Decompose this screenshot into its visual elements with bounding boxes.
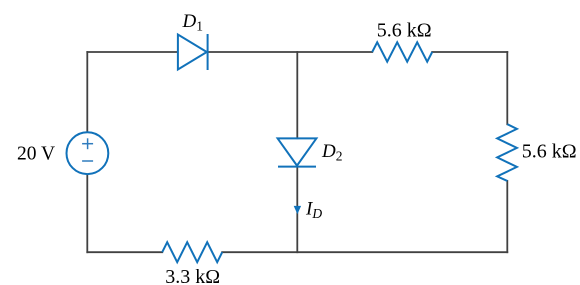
svg-text:D2: D2 — [321, 141, 342, 164]
svg-text:5.6 kΩ: 5.6 kΩ — [377, 19, 432, 41]
svg-text:3.3 kΩ: 3.3 kΩ — [165, 266, 220, 285]
svg-text:5.6 kΩ: 5.6 kΩ — [522, 140, 577, 162]
svg-text:20 V: 20 V — [17, 144, 55, 165]
svg-text:D1: D1 — [182, 11, 203, 34]
svg-text:ID: ID — [305, 199, 322, 222]
